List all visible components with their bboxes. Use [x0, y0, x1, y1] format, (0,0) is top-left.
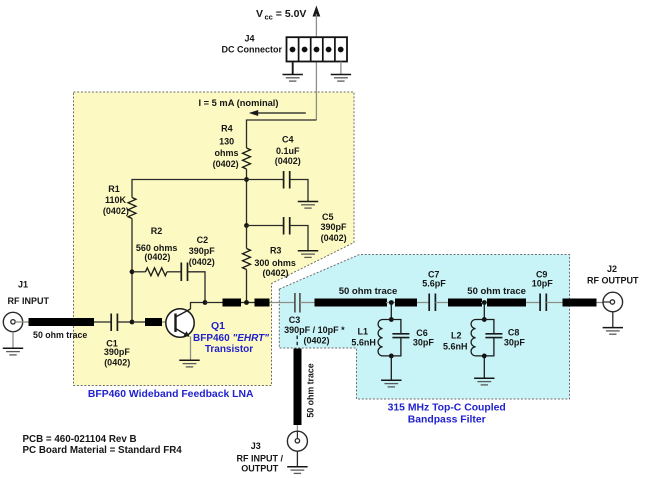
wire tank 1 to ground: [390, 356, 392, 380]
wire C1 to node B2: [117, 321, 132, 323]
wire node F2 to tank 2: [483, 303, 485, 320]
filter 50 ohm trace 1: [315, 299, 388, 307]
wire R3 to collector node: [246, 270, 248, 303]
wire R1 to node B1: [131, 219, 133, 323]
svg-text:C3: C3: [289, 315, 301, 325]
svg-text:Vcc = 5.0V: Vcc = 5.0V: [256, 8, 306, 22]
svg-text:(0402): (0402): [104, 358, 130, 368]
wire Vcc feed (J4 pin3 down to rail): [315, 14, 317, 120]
svg-text:DC Connector: DC Connector: [222, 45, 283, 55]
ground (J3): [287, 467, 307, 474]
wire C5 to ground: [290, 226, 308, 251]
svg-text:0.1uF: 0.1uF: [276, 146, 300, 156]
wire node F1 to tank 1: [390, 303, 392, 320]
wire Q1 collector to node C: [191, 303, 206, 310]
wire trace to C3: [270, 302, 295, 304]
svg-text:C5: C5: [322, 212, 334, 222]
svg-text:50 ohm trace: 50 ohm trace: [339, 286, 398, 297]
transistor Q1: [166, 309, 269, 355]
LNA shaded region (BFP460 Wideband Feedback LNA): [74, 92, 355, 386]
svg-text:5.6nH: 5.6nH: [443, 342, 468, 352]
node V1 junction dot: [244, 177, 249, 182]
svg-text:PC Board Material = Standard: PC Board Material = Standard FR4: [23, 445, 183, 456]
wire Vcc rail to R4: [247, 120, 317, 148]
capacitor C5: [284, 212, 347, 243]
node T1 junction dot: [389, 317, 394, 322]
wire trace to J2: [597, 302, 604, 304]
wire node B2 to base trace: [132, 321, 146, 323]
svg-text:C2: C2: [197, 235, 209, 245]
wire at node F2: [481, 302, 488, 304]
node C junction dot: [203, 300, 208, 305]
node T1b junction dot: [389, 354, 394, 359]
svg-text:50 ohm trace: 50 ohm trace: [33, 330, 87, 340]
capacitor C4: [275, 135, 301, 189]
svg-text:R1: R1: [108, 184, 120, 194]
svg-text:30pF: 30pF: [504, 338, 526, 348]
svg-text:315 MHz Top-C Coupled: 315 MHz Top-C Coupled: [388, 403, 506, 414]
ground (J2): [603, 328, 623, 335]
svg-text:BFP460 Wideband Feedback LNA: BFP460 Wideband Feedback LNA: [88, 389, 254, 400]
resistor R2: [132, 226, 177, 276]
inductor L1: [351, 320, 391, 356]
wire J4 pin1 to ground: [292, 62, 294, 75]
base 50 ohm trace: [145, 318, 162, 326]
filter 50 ohm trace 2: [395, 299, 417, 307]
node F1 junction dot: [389, 300, 394, 305]
svg-text:390pF: 390pF: [320, 222, 347, 232]
ground (J1): [3, 348, 23, 355]
wire node C to collector trace: [205, 302, 223, 304]
wire trace to C7: [417, 302, 429, 304]
svg-text:RF INPUT /: RF INPUT /: [237, 454, 284, 464]
svg-text:(0402): (0402): [144, 252, 170, 262]
node T2b junction dot: [482, 354, 487, 359]
svg-text:390pF: 390pF: [104, 347, 131, 357]
J3 50 ohm trace (vertical): [294, 349, 302, 426]
svg-text:C8: C8: [508, 328, 520, 338]
dashed leader C3 to J3 trace: [296, 336, 298, 348]
collector 50 ohm trace 2: [255, 299, 270, 307]
svg-text:R3: R3: [270, 245, 282, 255]
connector J1: [3, 280, 49, 332]
svg-text:L1: L1: [358, 327, 369, 337]
svg-text:5.6nH: 5.6nH: [351, 337, 376, 347]
svg-text:RF INPUT: RF INPUT: [8, 296, 50, 306]
connector J4: [222, 34, 347, 62]
node F2 junction dot: [482, 300, 487, 305]
svg-text:5.6pF: 5.6pF: [422, 279, 446, 289]
svg-text:(0402): (0402): [213, 159, 239, 169]
svg-text:J1: J1: [18, 280, 28, 290]
connector J2: [587, 264, 639, 312]
ground (Q1 emitter): [179, 360, 199, 367]
resistor R1: [103, 184, 136, 219]
wire node V1 to C4: [247, 179, 284, 181]
svg-text:RF OUTPUT: RF OUTPUT: [587, 275, 639, 285]
svg-text:J4: J4: [244, 34, 254, 44]
ground (C4): [298, 202, 318, 209]
svg-text:L2: L2: [451, 331, 462, 341]
node D junction dot: [244, 300, 249, 305]
wire J2 to ground: [612, 312, 614, 327]
wire trace to C9: [526, 302, 540, 304]
svg-text:Bandpass Filter: Bandpass Filter: [408, 415, 486, 426]
wire J3 inner lead: [296, 431, 298, 438]
filter 50 ohm trace 3: [448, 299, 482, 307]
capacitor C2: [181, 235, 215, 281]
svg-text:(0402): (0402): [275, 156, 301, 166]
wire C9 to output trace: [546, 302, 563, 304]
svg-text:(0402): (0402): [189, 257, 215, 267]
wire J4 pin5 to ground: [340, 62, 342, 75]
wire at node F1: [386, 302, 396, 304]
wire Q1 emitter to ground: [190, 337, 192, 360]
svg-text:ohms: ohms: [214, 148, 238, 158]
Vcc arrow: [313, 6, 321, 17]
svg-text:50 ohm trace: 50 ohm trace: [306, 363, 316, 417]
ground (tank 2): [474, 378, 494, 385]
input 50 ohm trace: [29, 318, 95, 326]
svg-text:30pF: 30pF: [413, 337, 435, 347]
svg-text:10pF: 10pF: [532, 279, 554, 289]
ground (C5): [298, 251, 318, 258]
capacitor C7: [422, 270, 446, 311]
node T2 junction dot: [482, 317, 487, 322]
svg-text:110K: 110K: [105, 195, 127, 205]
wire R4 to node V1: [246, 169, 248, 226]
svg-text:C4: C4: [282, 135, 294, 145]
ground (tank 1): [381, 380, 401, 387]
current arrow: [254, 112, 306, 114]
svg-text:Q1: Q1: [211, 320, 225, 332]
node B1 junction dot: [130, 269, 135, 274]
output 50 ohm trace: [563, 299, 597, 307]
ground (J4 pin1): [283, 75, 303, 82]
svg-text:R4: R4: [221, 124, 233, 134]
wire tank 2 to ground: [483, 356, 485, 378]
wire to node D: [241, 302, 255, 304]
svg-text:I = 5 mA (nominal): I = 5 mA (nominal): [199, 98, 279, 108]
svg-text:300 ohms: 300 ohms: [254, 258, 296, 268]
wire R2 to C2: [167, 271, 181, 273]
wire trace to C1: [94, 321, 111, 323]
ground (J4 pin5): [331, 75, 351, 82]
svg-text:50 ohm trace: 50 ohm trace: [467, 286, 526, 297]
filter 50 ohm trace 4: [487, 299, 526, 307]
wire top rail to R1: [132, 180, 247, 198]
svg-text:OUTPUT: OUTPUT: [241, 464, 279, 474]
svg-text:J2: J2: [607, 264, 617, 274]
svg-text:R2: R2: [151, 226, 163, 236]
resistor R4: [213, 124, 251, 170]
svg-text:(0402): (0402): [303, 335, 329, 345]
svg-text:BFP460 "EHRT": BFP460 "EHRT": [193, 333, 269, 344]
wire J1 to input trace: [15, 321, 30, 323]
svg-text:J3: J3: [251, 441, 261, 451]
svg-text:390pF: 390pF: [189, 246, 216, 256]
svg-text:(0402): (0402): [321, 233, 347, 243]
filter shaded region (315 MHz Top-C Coupled Bandpass Filter): [279, 255, 569, 400]
wire J1 to ground: [12, 332, 14, 348]
capacitor C8: [484, 320, 525, 356]
wire C2 to collector node: [188, 272, 206, 303]
node V2 junction dot: [244, 223, 249, 228]
svg-text:(0402): (0402): [103, 206, 129, 216]
connector J3: [237, 431, 308, 473]
wire node V2 to C5: [247, 225, 284, 227]
wire C7 to trace: [435, 302, 448, 304]
wire C3 to filter trace: [300, 302, 315, 304]
inductor L2: [443, 320, 484, 356]
wire J3 to ground: [296, 451, 298, 466]
wire base trace to Q1: [162, 321, 176, 323]
capacitor C3: [284, 293, 345, 345]
capacitor C1: [104, 314, 131, 368]
svg-text:Transistor: Transistor: [205, 344, 253, 355]
collector 50 ohm trace 1: [223, 299, 242, 307]
resistor R3: [243, 245, 296, 278]
svg-text:130: 130: [219, 137, 234, 147]
svg-text:390pF / 10pF *: 390pF / 10pF *: [284, 325, 345, 335]
wire J3 trace to J3: [296, 425, 298, 441]
svg-text:PCB = 460-021104 Rev B: PCB = 460-021104 Rev B: [23, 434, 137, 445]
capacitor C6: [391, 320, 434, 356]
node B2 junction dot: [130, 320, 135, 325]
wire node V2 to R3: [246, 226, 248, 249]
wire C4 to ground: [290, 180, 308, 202]
capacitor C9: [532, 270, 554, 311]
svg-text:(0402): (0402): [262, 268, 288, 278]
wire J2 inner lead: [603, 301, 610, 303]
